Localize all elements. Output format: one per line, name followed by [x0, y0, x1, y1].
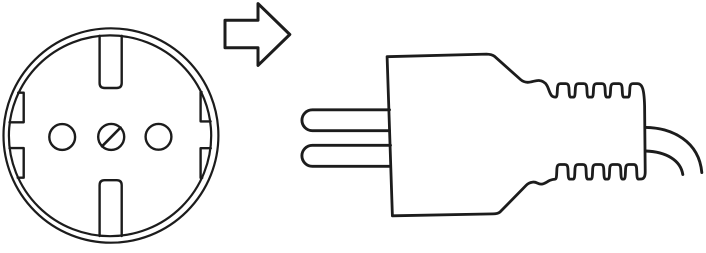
top key slot — [100, 36, 122, 88]
socket outer ring — [4, 28, 219, 242]
left detent notch upper — [10, 93, 24, 123]
pin hole left — [49, 124, 75, 150]
cord lower line — [646, 151, 683, 175]
plug body and strain relief outline — [387, 54, 645, 216]
socket inner ring — [9, 35, 211, 236]
right detent notch lower — [201, 148, 211, 178]
pin hole right — [146, 124, 172, 150]
center screw slot line — [102, 128, 121, 147]
left detent notch lower — [10, 148, 24, 178]
right detent notch upper — [201, 92, 211, 121]
center screw circle — [98, 124, 124, 150]
plug pin upper — [302, 110, 390, 131]
plug pin lower — [302, 145, 391, 166]
block arrow — [225, 4, 290, 66]
cord upper line — [646, 127, 702, 172]
bottom key slot — [100, 180, 122, 236]
